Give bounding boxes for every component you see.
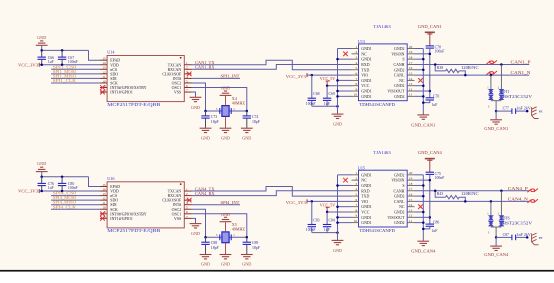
pin 15 EPAD — [100, 186, 107, 188]
earth PE — [532, 233, 539, 245]
junction — [526, 110, 529, 113]
svg-text:R38: R38 — [437, 66, 443, 70]
pin 10 SCK — [100, 82, 107, 84]
wire OSC1 — [192, 214, 247, 238]
wire — [338, 206, 352, 208]
wire — [338, 95, 352, 97]
pin 7 VSS — [184, 217, 191, 219]
svg-text:7: 7 — [355, 203, 357, 207]
capacitor C74 18pF — [246, 111, 248, 116]
svg-text:PE: PE — [539, 110, 543, 114]
ground GND (crystal case bottom) — [225, 243, 227, 254]
ground GND (crystal case top) — [225, 96, 227, 106]
svg-text:GND1: GND1 — [361, 216, 371, 220]
svg-text:10: 10 — [354, 93, 358, 97]
ground GND_CAN1 (bus) — [417, 115, 429, 119]
svg-text:C70: C70 — [433, 94, 439, 98]
capacitor C88 18pF — [205, 237, 207, 242]
pin 9 INT0#/GPIO0/XSTBY — [100, 87, 107, 89]
svg-text:NC: NC — [361, 52, 367, 56]
svg-text:TXD: TXD — [361, 195, 369, 199]
svg-text:VCC_3V3: VCC_3V3 — [286, 200, 307, 205]
svg-text:4: 4 — [355, 61, 357, 65]
wire — [39, 190, 100, 192]
wire OSC2 — [192, 83, 206, 111]
wire crystal node — [206, 236, 247, 238]
svg-text:7: 7 — [355, 77, 357, 81]
no-connect pin2 NC — [343, 178, 348, 183]
no-connect pin14 NC — [418, 78, 423, 83]
svg-text:100nF: 100nF — [68, 60, 78, 64]
svg-text:BST23C152V: BST23C152V — [503, 95, 533, 99]
svg-text:1: 1 — [355, 171, 357, 175]
svg-text:C73: C73 — [211, 115, 217, 119]
pin 3 CLKO/SOF — [184, 73, 191, 75]
svg-text:CLKO/SOF: CLKO/SOF — [162, 199, 182, 203]
no-connect INT0 — [100, 212, 105, 217]
wire CANH CAN1_P — [415, 63, 530, 65]
wire cap return — [312, 105, 338, 107]
junction — [311, 200, 314, 203]
junction — [526, 236, 529, 239]
wire GND bus — [337, 49, 339, 114]
svg-text:3: 3 — [355, 56, 357, 60]
wire CANL CAN4_N — [415, 200, 530, 202]
capacitor C66 1uF — [41, 50, 43, 57]
svg-text:GND: GND — [221, 212, 230, 217]
pin 14 NC — [407, 206, 414, 208]
CAN controller U16 MCP2517FDT-E/QBB — [107, 182, 184, 228]
junction — [326, 211, 329, 214]
svg-text:GND_CAN1: GND_CAN1 — [411, 122, 435, 127]
pin 3 GND1 — [352, 184, 359, 186]
svg-text:EPAD: EPAD — [110, 59, 120, 63]
svg-text:10: 10 — [102, 79, 106, 83]
ground GND (C right) — [241, 128, 253, 132]
capacitor C86 1uF — [426, 224, 434, 226]
capacitor C78 100nF — [426, 46, 434, 48]
svg-text:INT0#/GPIO0/XSTBY: INT0#/GPIO0/XSTBY — [110, 86, 147, 90]
wire — [89, 177, 101, 187]
svg-text:GND_CAN1: GND_CAN1 — [418, 24, 442, 29]
svg-text:6: 6 — [186, 210, 188, 214]
svg-text:6: 6 — [355, 198, 357, 202]
capacitor C83 100nF — [311, 201, 313, 224]
svg-text:2: 2 — [355, 177, 357, 181]
wire CAN1_RX — [192, 64, 352, 69]
wire VISOOUT — [415, 216, 430, 218]
wire — [338, 174, 352, 176]
pin 15 CANL — [407, 200, 414, 202]
svg-text:GND_CAN4: GND_CAN4 — [484, 252, 508, 257]
svg-text:INT#: INT# — [173, 203, 181, 207]
junction — [422, 58, 425, 61]
svg-text:18: 18 — [409, 182, 413, 186]
svg-text:TDH541SCANFD: TDH541SCANFD — [359, 102, 395, 107]
capacitor C76 1uF — [41, 177, 43, 184]
ground GND (transceiver) — [332, 240, 344, 244]
pin 7 VSS — [184, 91, 191, 93]
svg-text:12: 12 — [102, 197, 106, 201]
svg-text:VCC_3V3: VCC_3V3 — [286, 74, 307, 79]
capacitor C70 1uF — [426, 98, 434, 100]
svg-text:40MHZ: 40MHZ — [232, 227, 246, 232]
wire — [338, 184, 352, 186]
svg-text:VCC_3V3: VCC_3V3 — [18, 62, 39, 67]
svg-text:19: 19 — [409, 177, 413, 181]
svg-text:INT0#/GPIO0/XSTBY: INT0#/GPIO0/XSTBY — [110, 212, 147, 216]
wire crystal node — [206, 110, 247, 112]
sheet border — [0, 270, 554, 272]
svg-text:CAN4_P: CAN4_P — [508, 186, 529, 191]
pin 2 RXCAN — [184, 68, 191, 70]
wire SPI4_CS0 — [51, 195, 100, 197]
svg-text:VIO: VIO — [361, 74, 368, 78]
no-connect CLKO/SOF — [187, 198, 192, 203]
svg-text:SPI4_CLK: SPI4_CLK — [53, 204, 77, 209]
diff pair directive P — [486, 60, 497, 64]
pin 19 VISOIN — [407, 53, 414, 55]
svg-text:C77: C77 — [503, 107, 509, 111]
svg-text:13: 13 — [409, 208, 413, 212]
svg-text:15: 15 — [409, 71, 413, 75]
svg-text:CANH: CANH — [393, 189, 404, 193]
svg-text:GND1: GND1 — [361, 47, 371, 51]
crystal X5 40MHZ — [220, 234, 231, 240]
pin 2 NC — [352, 53, 359, 55]
pin 6 OSC1 — [184, 87, 191, 89]
junction — [336, 184, 339, 187]
svg-text:OSC2: OSC2 — [172, 208, 182, 212]
pin 11 SDI — [100, 77, 107, 79]
junction — [336, 58, 339, 61]
svg-text:CAN1_N: CAN1_N — [511, 70, 531, 75]
svg-text:20: 20 — [409, 171, 413, 175]
junction — [40, 175, 43, 178]
svg-text:GND2: GND2 — [394, 95, 404, 99]
ground GND (transceiver) — [332, 114, 344, 118]
svg-text:CANL: CANL — [394, 74, 405, 78]
wire VISOIN — [415, 179, 430, 181]
pin 2 RXCAN — [184, 195, 191, 197]
capacitor C67 100nF — [61, 50, 63, 57]
no-connect pin2 NC — [343, 52, 348, 57]
svg-text:5: 5 — [186, 206, 188, 210]
junction — [40, 64, 43, 67]
wire — [415, 58, 424, 60]
pin 13 nCS — [100, 195, 107, 197]
capacitor C73 18pF — [205, 111, 207, 116]
svg-text:C87: C87 — [503, 233, 509, 237]
svg-text:GND1: GND1 — [361, 58, 371, 62]
pin 15 EPAD — [100, 59, 107, 61]
svg-text:CLKO/SOF: CLKO/SOF — [162, 72, 182, 76]
wire CANH CAN4_P — [415, 190, 530, 192]
wire VISOOUT — [415, 90, 430, 92]
pin 5 OSC2 — [184, 208, 191, 210]
pin 11 GND2 — [407, 95, 414, 97]
crystal X4 40MHZ — [220, 108, 231, 114]
svg-text:INT1#/GPIO1: INT1#/GPIO1 — [110, 91, 133, 95]
svg-text:14: 14 — [409, 77, 413, 81]
svg-text:120R/NC: 120R/NC — [461, 66, 479, 70]
svg-text:1uF: 1uF — [432, 103, 438, 107]
ground GND (crystal case top) — [225, 222, 227, 232]
svg-text:GND: GND — [191, 231, 200, 236]
pin 4 RXD — [352, 190, 359, 192]
svg-text:6: 6 — [355, 71, 357, 75]
pin 3 GND1 — [352, 58, 359, 60]
wire CANL CAN1_N — [415, 74, 530, 76]
svg-text:OSC2: OSC2 — [172, 81, 182, 85]
svg-text:nCS: nCS — [110, 194, 117, 198]
svg-text:VCC_3V3: VCC_3V3 — [18, 189, 39, 194]
svg-text:VCC_5V: VCC_5V — [320, 76, 336, 81]
svg-text:C74: C74 — [252, 115, 258, 119]
pin 17 CANH — [407, 63, 414, 65]
pin 12 SDO — [100, 73, 107, 75]
svg-text:SCK: SCK — [110, 208, 118, 212]
svg-text:GND_CAN1: GND_CAN1 — [484, 126, 508, 131]
wire — [89, 50, 101, 60]
svg-text:14: 14 — [102, 61, 106, 65]
svg-text:15: 15 — [409, 198, 413, 202]
svg-text:8: 8 — [355, 82, 357, 86]
svg-text:U14: U14 — [107, 50, 115, 55]
svg-text:INT1#/GPIO1: INT1#/GPIO1 — [110, 217, 133, 221]
svg-text:100nF: 100nF — [306, 102, 316, 106]
svg-text:GND_CAN4: GND_CAN4 — [411, 249, 435, 254]
capacitor C80 100nF — [61, 177, 63, 184]
svg-text:TJA1463: TJA1463 — [373, 24, 390, 29]
diff pair directive N — [486, 71, 497, 75]
ground GND_CAN4 (bus) — [417, 241, 429, 245]
wire GND bus — [337, 175, 339, 240]
svg-text:PE: PE — [539, 236, 543, 240]
wire GND2 bus — [422, 49, 424, 115]
svg-text:OSC1: OSC1 — [172, 212, 182, 216]
junction — [40, 190, 43, 193]
junction — [429, 179, 432, 182]
svg-text:VISOOUT: VISOOUT — [387, 216, 405, 220]
svg-text:GND2: GND2 — [394, 47, 404, 51]
pin 3 CLKO/SOF — [184, 199, 191, 201]
svg-text:VDD: VDD — [110, 190, 119, 194]
svg-text:17: 17 — [409, 61, 413, 65]
svg-text:RXD: RXD — [361, 63, 369, 67]
svg-text:18: 18 — [409, 56, 413, 60]
wire — [415, 95, 424, 97]
wire VSS to ground — [192, 218, 196, 223]
wire SPI4_MISO — [51, 204, 100, 206]
ground GND (VSS) — [190, 97, 202, 101]
svg-text:R43: R43 — [437, 192, 443, 196]
svg-text:10: 10 — [354, 219, 358, 223]
wire — [39, 64, 100, 66]
ground GND (VSS) — [190, 224, 202, 228]
wire — [415, 85, 424, 87]
svg-text:GND: GND — [221, 262, 230, 267]
pin 5 TXD — [352, 69, 359, 71]
junction — [434, 190, 437, 193]
wire — [338, 58, 352, 60]
ground GND (C left) — [200, 128, 212, 132]
svg-text:17: 17 — [409, 187, 413, 191]
svg-text:14: 14 — [102, 187, 106, 191]
svg-text:BST23C152V: BST23C152V — [503, 222, 533, 226]
svg-text:DT1: DT1 — [503, 90, 510, 94]
svg-text:GND: GND — [37, 35, 46, 40]
ground GND (crystal case bottom) — [225, 116, 227, 127]
no-connect INT1 — [100, 216, 105, 221]
svg-text:SPI1_CLK: SPI1_CLK — [53, 78, 77, 83]
wire SPI1_MISO — [51, 77, 100, 79]
wire OSC1 — [192, 88, 247, 112]
svg-text:U16: U16 — [107, 176, 114, 181]
svg-text:TXD: TXD — [361, 68, 369, 72]
svg-text:8: 8 — [355, 208, 357, 212]
svg-text:1: 1 — [355, 45, 357, 49]
svg-text:C84: C84 — [329, 219, 335, 223]
pin 4 INT# — [184, 77, 191, 79]
svg-text:U13: U13 — [358, 39, 365, 44]
svg-text:6: 6 — [186, 84, 188, 88]
pin 1 TXCAN — [184, 64, 191, 66]
svg-text:18pF: 18pF — [252, 246, 260, 250]
wire CAN1_TX — [192, 60, 352, 70]
svg-text:GND1: GND1 — [361, 79, 371, 83]
svg-text:1uF: 1uF — [324, 102, 330, 106]
pin 13 nCS — [100, 68, 107, 70]
svg-text:18pF: 18pF — [211, 120, 219, 124]
svg-text:1uF: 1uF — [432, 229, 438, 233]
svg-text:14: 14 — [409, 203, 413, 207]
svg-text:11: 11 — [409, 219, 413, 223]
wire — [327, 211, 351, 213]
svg-text:DT6: DT6 — [503, 217, 510, 221]
svg-text:GND: GND — [242, 135, 251, 140]
pin 16 GND2 — [407, 195, 414, 197]
wire SPI1_CS0 — [51, 68, 100, 70]
svg-text:11: 11 — [102, 75, 106, 79]
pin 20 GND2 — [407, 48, 414, 50]
pin 10 GND1 — [352, 95, 359, 97]
svg-text:20: 20 — [409, 45, 413, 49]
svg-text:13: 13 — [102, 192, 106, 196]
svg-text:SDI: SDI — [110, 203, 117, 207]
capacitor C77 1nF 2kV — [496, 110, 512, 112]
svg-text:NC: NC — [399, 79, 405, 83]
svg-text:GND1: GND1 — [361, 184, 371, 188]
wire — [415, 174, 424, 176]
svg-text:1: 1 — [186, 61, 188, 65]
svg-text:100nF: 100nF — [68, 186, 78, 190]
transceiver U13 TDH541SCANFD — [359, 44, 408, 101]
wire — [338, 216, 352, 218]
pin 7 GND1 — [352, 79, 359, 81]
pin 11 SDI — [100, 204, 107, 206]
svg-text:13: 13 — [409, 82, 413, 86]
svg-text:12: 12 — [102, 70, 106, 74]
svg-text:S: S — [402, 58, 404, 62]
wire SPI1_INT — [192, 77, 241, 79]
wire CAN4_RX — [192, 191, 352, 196]
svg-text:1uF: 1uF — [48, 186, 54, 190]
pin 15 CANL — [407, 74, 414, 76]
svg-text:SCK: SCK — [110, 81, 118, 85]
wire — [415, 211, 424, 213]
svg-text:GND1: GND1 — [361, 221, 371, 225]
no-connect INT1 — [100, 90, 105, 95]
svg-text:GND: GND — [201, 262, 210, 267]
svg-text:CAN4_N: CAN4_N — [508, 196, 528, 201]
svg-text:120R/NC: 120R/NC — [461, 192, 479, 196]
svg-text:5: 5 — [186, 79, 188, 83]
svg-text:5: 5 — [355, 192, 357, 196]
wire — [42, 176, 89, 178]
pin 10 GND1 — [352, 222, 359, 224]
svg-text:GND2: GND2 — [394, 221, 404, 225]
wire — [42, 49, 89, 51]
svg-text:GND: GND — [242, 262, 251, 267]
no-connect pin14 NC — [418, 204, 423, 209]
svg-text:MCP2517FDT-E/QBB: MCP2517FDT-E/QBB — [107, 228, 160, 233]
wire — [338, 90, 352, 92]
pin 9 GND1 — [352, 216, 359, 218]
svg-text:13: 13 — [102, 66, 106, 70]
svg-text:SDO: SDO — [110, 72, 118, 76]
ground GND (C right) — [241, 255, 253, 259]
svg-text:NC: NC — [361, 179, 367, 183]
wire SPI1_MOSI — [51, 73, 100, 75]
wire — [338, 48, 352, 50]
svg-text:C83: C83 — [313, 219, 319, 223]
wire — [327, 85, 351, 87]
svg-text:INT#: INT# — [173, 77, 181, 81]
pin 4 INT# — [184, 204, 191, 206]
wire — [307, 74, 352, 76]
svg-text:SPI4_INT: SPI4_INT — [221, 200, 240, 205]
junction — [311, 74, 314, 77]
svg-text:MCP2517FDT-E/QBB: MCP2517FDT-E/QBB — [107, 102, 160, 107]
junction — [495, 110, 498, 113]
junction — [204, 110, 207, 113]
svg-text:4: 4 — [355, 187, 357, 191]
wire SPI4_CLK — [51, 208, 100, 210]
svg-text:18pF: 18pF — [252, 120, 260, 124]
TVS DT6 BST23C152V — [500, 191, 502, 216]
svg-text:GND: GND — [37, 161, 46, 166]
pin 12 SDO — [100, 199, 107, 201]
pin 7 GND1 — [352, 206, 359, 208]
no-connect INT0 — [100, 85, 105, 90]
svg-text:12: 12 — [409, 214, 413, 218]
resistor R38 120R/NC — [435, 64, 445, 70]
pin 8 VCC — [352, 211, 359, 213]
wire — [307, 200, 352, 202]
svg-text:GND2: GND2 — [394, 68, 404, 72]
pin 8 INT1#/GPIO1 — [100, 217, 107, 219]
capacitor C84 1uF — [326, 212, 328, 224]
ground GND_CAN1 (TVS) — [495, 111, 497, 119]
svg-text:SDI: SDI — [110, 77, 117, 81]
svg-text:1nF 2kV: 1nF 2kV — [516, 233, 531, 237]
svg-text:SDO: SDO — [110, 199, 118, 203]
capacitor C87 1nF 2kV — [496, 236, 512, 238]
svg-text:1: 1 — [186, 187, 188, 191]
diff pair directive N — [527, 199, 538, 203]
wire — [415, 184, 424, 186]
